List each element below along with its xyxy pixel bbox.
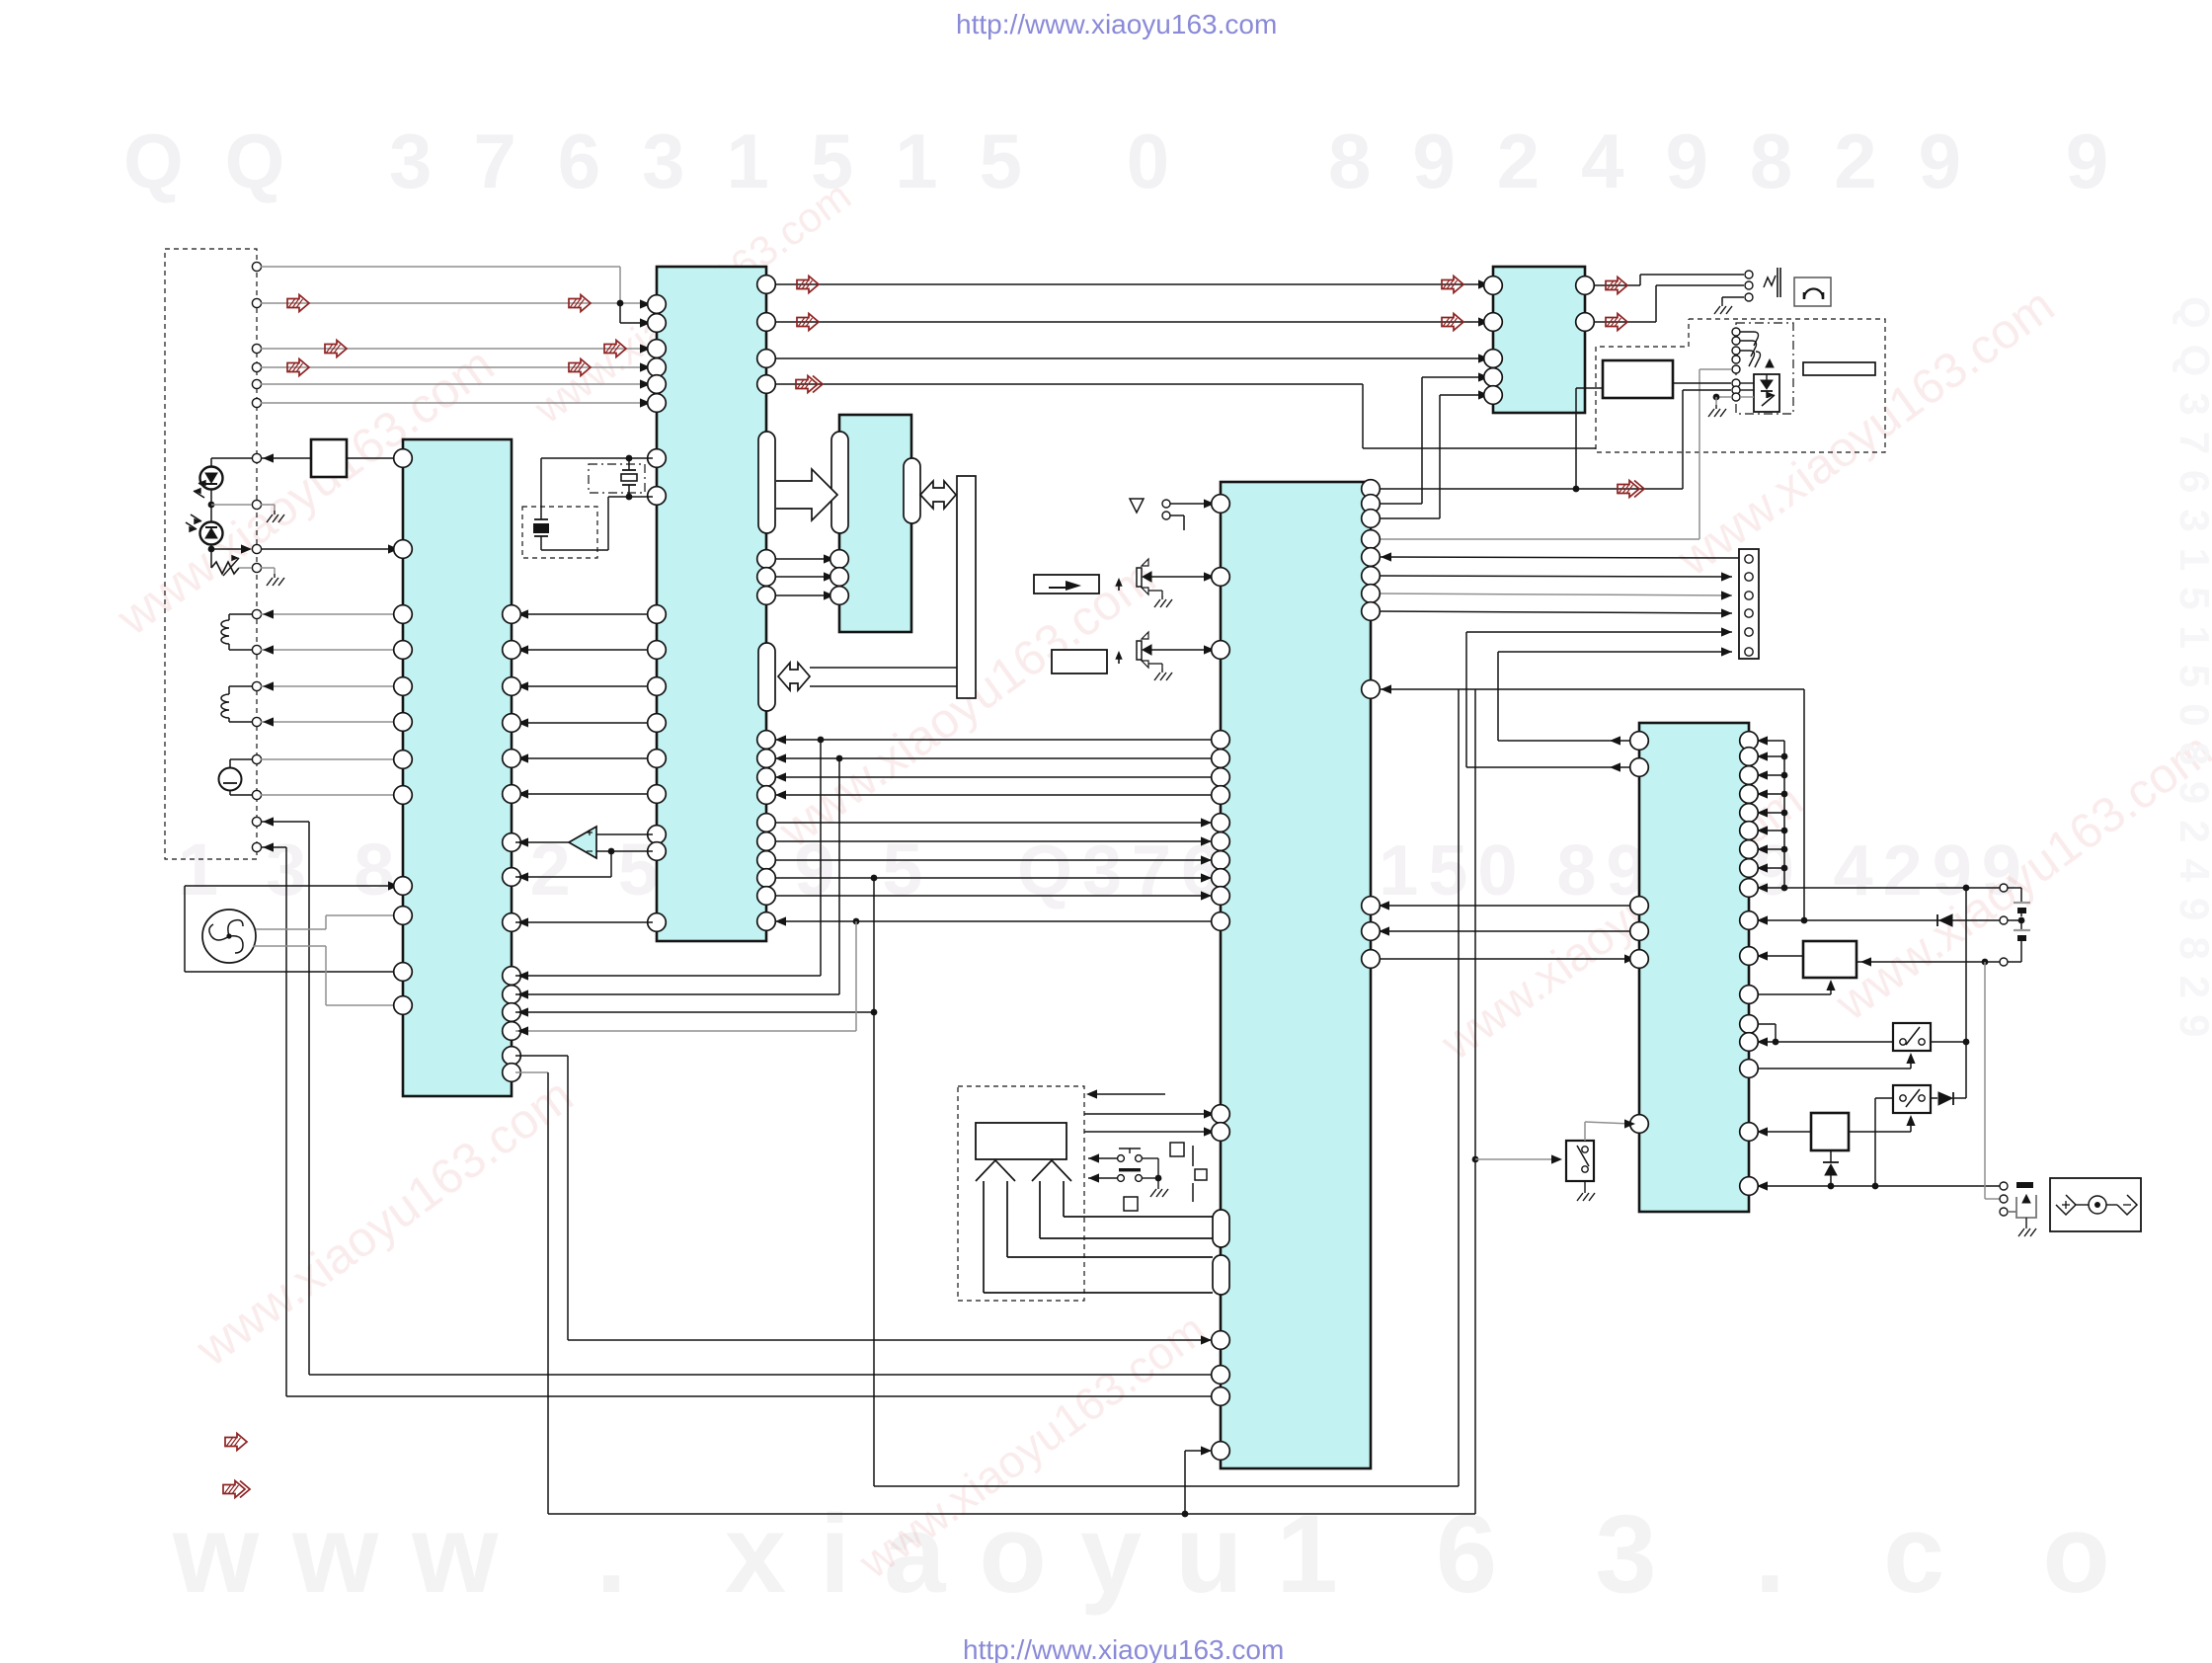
wire F1082 to SW1 bottom (1753, 1068, 1911, 1069)
bus arrow B to C (776, 469, 837, 520)
IC B right pins mid (757, 550, 776, 569)
bus port pill C left (831, 432, 848, 533)
wire B-D row 889 (771, 877, 1212, 879)
wire row 408 to B pin 6 (261, 402, 647, 404)
wire B-D row 907 (771, 895, 1212, 897)
wire row 575 to ground (239, 567, 252, 569)
LED D1 (emitter) (200, 467, 223, 490)
IC F left pins (1630, 732, 1649, 751)
signal arrow row 288 left (797, 277, 819, 293)
wire A-B row 934 (515, 921, 653, 923)
wire D2 cathode junction (210, 545, 212, 569)
signal arrow row 326 left (797, 314, 819, 331)
up arrow symbol 1 (1118, 581, 1120, 591)
wire row 464 circle to A via box (261, 457, 399, 459)
IC D left pins upper (1212, 495, 1230, 514)
battery cell BT1 (2008, 887, 2021, 889)
wire LED D1 anode (210, 458, 212, 467)
wire SW1 to rail (1931, 1041, 1966, 1043)
photodiode D2 (200, 522, 223, 545)
wire SW2 left from rail (1875, 1097, 1893, 1099)
wire R3 to SW2 bottom (1849, 1131, 1911, 1133)
regulator box R2 (1803, 941, 1856, 978)
earpiece symbol 2 (1137, 641, 1142, 660)
wire row 622 A to circle (261, 613, 399, 615)
wire row 307 with fork to B pins 1-2 (261, 302, 653, 304)
IC D right pins (1362, 480, 1381, 499)
IC block E (audio amp IC) (1493, 267, 1585, 413)
switch box SW1 (1893, 1023, 1931, 1051)
wire loop via 1505 (874, 1485, 1459, 1487)
wire row 270 to junction (261, 266, 620, 268)
earpiece symbol 1 (1137, 568, 1142, 587)
svg-text:http://www.xiaoyu163.com: http://www.xiaoyu163.com (963, 1634, 1284, 1663)
signal arrow row 389 (796, 376, 818, 393)
regulator box R3 (1811, 1113, 1849, 1150)
IC block A (servo/driver IC) (403, 439, 512, 1096)
bus port pill C right (904, 458, 920, 523)
dash-dot box optocoupler section (1736, 323, 1793, 414)
vertical rail 1991 (1965, 888, 1967, 1098)
wire B-E row 326 (771, 321, 1489, 323)
svg-text:www . xiaoyu1 6 3 . c o m: www . xiaoyu1 6 3 . c o m (172, 1492, 2212, 1616)
ground G2 (274, 574, 276, 578)
IC A right pins (503, 605, 521, 624)
wire row 832 to D pin (long L) (261, 821, 309, 823)
ground G3 (1161, 595, 1163, 599)
ground G6 (1721, 302, 1723, 306)
wire keyboard to D pin 1146 (1084, 1131, 1213, 1133)
wire F750 to connector row 660 (1498, 740, 1635, 742)
IC E left pins (1484, 277, 1503, 295)
wire B-C row 584 (771, 576, 834, 578)
op-amp U7 (569, 827, 596, 858)
wire gray battery to DC jack (1984, 962, 1986, 1199)
wire row 805 circle to A (261, 794, 399, 796)
DC jack contacts (2000, 1182, 2008, 1190)
signal arrow row 353 right (604, 341, 626, 357)
junction tap row 933 gray (853, 918, 860, 925)
wire B-D row 833 (771, 822, 1212, 824)
DC jack body (2008, 1195, 2036, 1218)
battery cell BT2 (2020, 920, 2022, 929)
wire B pin 464 net (541, 457, 653, 459)
tape direction indicator box (1034, 575, 1099, 594)
wire earpiece1 to D pin 584 (1151, 576, 1213, 578)
light arrows D1 (194, 491, 204, 498)
wire A-B row 768 (515, 757, 653, 759)
diode D3 (1939, 914, 1952, 926)
IC block D (system control MCU) (1221, 482, 1371, 1468)
wire B-C row 603 (771, 594, 834, 596)
wire D583 to connector (1377, 576, 1732, 577)
legend signal arrow 2 (223, 1481, 245, 1498)
label plate box (1803, 362, 1875, 375)
bus port pill D left upper (1213, 1210, 1229, 1247)
inductor L2 (229, 685, 252, 687)
connector contact circles on mechanism boundary (252, 262, 261, 271)
wire D495 to regulator R1 (1377, 488, 1683, 490)
headphone jack J1 body (1764, 276, 1776, 287)
wire R2 right feed (1856, 961, 2000, 963)
signal arrow row 326 right (1442, 314, 1463, 331)
wire into keyboard box top (1096, 1093, 1165, 1095)
ground G9 (2025, 1225, 2027, 1228)
wire F917 to D (1379, 905, 1635, 907)
wire motor bracket to A pins (185, 885, 399, 887)
wire B-C row 566 (771, 558, 834, 560)
wire E289 to jack tip (1590, 284, 1640, 286)
svg-text:89249829 9: 89249829 9 (1328, 118, 2150, 204)
wire A1069 to D pin 1358 (515, 1055, 568, 1057)
wire row 372 to B pin 4 (261, 366, 647, 368)
wire F879 from bus (1753, 867, 1784, 869)
wire D525 to E400 (1377, 517, 1440, 519)
wire F1201 battery negative rail (1753, 1185, 2000, 1187)
regulator R1 box (1603, 360, 1673, 398)
wire earpiece2 to D pin 658 (1151, 649, 1213, 651)
IC block F (power supply IC) (1639, 723, 1749, 1212)
ground G5 (1157, 1185, 1159, 1189)
IC B right pins upper (757, 276, 776, 294)
wire row 695 circle to A (261, 685, 399, 687)
bus port pill B right lower (758, 643, 775, 711)
microphone capsule MIC1 (219, 768, 242, 791)
wire F1055 switch SW1 (1753, 1041, 1893, 1043)
dash-dot box crystal X1 (589, 464, 645, 493)
signal arrow row 372 left (287, 359, 309, 376)
DC plug bar (2016, 1182, 2033, 1188)
IC D right pins mid (1362, 897, 1381, 915)
wire F777 to connector row 640 (1466, 766, 1635, 768)
dashed enclosure keyboard block (958, 1086, 1084, 1301)
external power connector box (2050, 1178, 2141, 1231)
dashed box capacitor C1 (522, 507, 597, 558)
wire B-D row 933 (775, 920, 1212, 922)
wire SW2 output diode (1931, 1097, 1937, 1099)
IC block C (memory IC) (839, 415, 911, 632)
signal arrow row 372 right (569, 359, 591, 376)
wire row 511 to ground (211, 504, 252, 506)
wire row 556 to A pin (211, 548, 248, 550)
wires tact switch (1088, 1157, 1117, 1159)
wire D510 to E382 (1377, 503, 1422, 505)
wire cap return to B pin 502 (541, 549, 608, 551)
wire B-D row 871 (771, 859, 1212, 861)
wire R1 left feed (1576, 387, 1603, 389)
wire F899 battery rail (1753, 887, 2000, 889)
wire keyboard to D pin 1128 (1084, 1113, 1213, 1115)
wire opamp - input with junction (596, 850, 653, 852)
IC A left pins (394, 449, 413, 468)
wire F860 from bus (1753, 848, 1784, 850)
ext mic jack symbol (1130, 499, 1144, 513)
wire opamp output to A (515, 841, 569, 843)
diode D5 below R3 (1823, 1161, 1839, 1163)
headphone jack J1 contacts (1745, 271, 1753, 278)
wire F943 to D (1379, 930, 1635, 932)
wire B-E row 363 (771, 357, 1489, 359)
switch box SW2 (1893, 1085, 1931, 1113)
small square S2 (1124, 1197, 1138, 1211)
wire row 731 circle to A (261, 721, 399, 723)
wire F1037 jog (1753, 1023, 1776, 1025)
tact switch SW4 (1118, 1155, 1125, 1162)
inductor L1 (229, 613, 252, 615)
wire D698 long L to power rail (1381, 688, 1804, 690)
indicator box 2 (1052, 650, 1107, 673)
wire F766 from bus (1753, 755, 1784, 757)
svg-text:http://www.xiaoyu163.com: http://www.xiaoyu163.com (956, 9, 1277, 40)
hollow up arrow 1 shaft to D pill lower (983, 1181, 985, 1293)
opto input circles (1732, 328, 1740, 336)
wire gray opto ground (1716, 396, 1732, 398)
capacitor C1 (534, 518, 548, 520)
wire R1 to opto circles (1673, 382, 1731, 384)
key matrix box (976, 1123, 1066, 1159)
wire A-B row 695 (515, 685, 653, 687)
wire row 858 to D pin (long L) (261, 846, 286, 848)
wire cap branch (540, 458, 542, 519)
IC B left pins (648, 295, 667, 314)
relay contact squiggles (1740, 332, 1759, 346)
wire row 769 circle to A (261, 758, 399, 760)
wire row 658 circle to A (261, 649, 399, 651)
signal arrow E326 (1606, 314, 1627, 331)
wire A-B row 622 (515, 613, 653, 615)
bus double arrow B lower (778, 663, 810, 690)
wire F968 from R2 (1753, 955, 1803, 957)
wires opto to box (1740, 382, 1754, 384)
wire F1007 to R2 bottom (1753, 993, 1831, 995)
hollow up arrow 2 shaft to D pill upper (1039, 1181, 1041, 1238)
wire F804 from bus (1753, 793, 1784, 795)
wire A-B row 804 (515, 793, 653, 795)
wire mic to D pin 510 (1170, 503, 1213, 505)
signal arrow E289 (1606, 277, 1627, 294)
IC E right pins (1576, 277, 1595, 295)
wire B-D row 852 (771, 840, 1212, 842)
junction tap row 889 long vertical (871, 875, 878, 882)
IC B right pins bundle (757, 731, 776, 750)
wire row 389 to B pin 5 (261, 383, 647, 385)
wire B-D row 768 (771, 757, 1212, 759)
bus port pill B right upper (758, 432, 775, 533)
svg-text:QQ37631515089249829: QQ37631515089249829 (2172, 296, 2212, 1053)
motor M1 (202, 910, 256, 963)
signal arrow row 495 (1618, 481, 1639, 498)
junction taps to A inputs (818, 737, 825, 744)
ground G4 (1161, 669, 1163, 673)
signal arrow row 307 left (287, 295, 309, 312)
wire E326 to jack ring (1590, 321, 1656, 323)
small square S1 (1170, 1143, 1184, 1156)
wire D971 to F (1375, 958, 1635, 960)
wire F1146 from R3 (1753, 1131, 1811, 1133)
battery contacts (2000, 884, 2008, 892)
headphone icon box (1794, 277, 1831, 306)
IC C left pins (830, 550, 849, 569)
IC D left pins bundle (1212, 731, 1230, 750)
wire D546 gray to optocoupler box (1377, 538, 1699, 540)
crystal X1 (628, 458, 630, 470)
wire motor winding 1 to A (256, 928, 326, 930)
triangle marker (1766, 359, 1774, 367)
wire F823 from bus (1753, 812, 1784, 814)
vertical trunk 1494 (1474, 689, 1476, 1514)
legend signal arrow 1 (225, 1434, 247, 1451)
signal arrow row 353 left (325, 341, 347, 357)
wire SW3 ground (1584, 1181, 1586, 1189)
wire motor winding 2 to A (253, 945, 326, 947)
IC F right pins (1740, 732, 1759, 751)
signal arrow row 288 right (1442, 277, 1463, 293)
wire SW3 output to F1138 (1584, 1122, 1586, 1141)
dashed enclosure mechanism (left) (165, 249, 257, 859)
wire 1704 vertical to opto row (1682, 390, 1684, 489)
wire B-D row 749 (771, 739, 1212, 741)
wire A1086 gray long bottom (515, 1071, 548, 1073)
wire opamp + input (596, 833, 653, 835)
up arrow symbol 2 (1118, 654, 1120, 664)
wire A-B row 732 (515, 722, 653, 724)
wire connector to D564 (1381, 557, 1743, 558)
ground G8 (1584, 1189, 1586, 1193)
variable resistor VR1 (211, 562, 239, 574)
wire node D1-D2 junction (210, 490, 212, 522)
bus lines B pill to RAM bar (810, 667, 957, 669)
capacitor C9 (1192, 1146, 1194, 1166)
bus double arrow C to RAM bar (920, 481, 956, 509)
optocoupler box OC1 (1754, 374, 1779, 412)
power switch SW3 (1566, 1141, 1594, 1181)
IC D left pins bottom (1212, 1105, 1230, 1124)
wire B-E row 288 (771, 283, 1489, 285)
signal arrow row 307 right (569, 295, 591, 312)
wire jack sleeve to ground (1722, 296, 1744, 298)
svg-text:QQ 37631515 0: QQ 37631515 0 (123, 118, 1211, 204)
ground G1 (274, 511, 276, 515)
wire bottom junction to D pin 1469 (1182, 1511, 1189, 1518)
wire B row 389 to power box (771, 383, 1363, 385)
hollow up arrow 1 head (976, 1160, 1015, 1181)
wire F750 from bus (1753, 740, 1784, 742)
hollow up arrow 2 head (1032, 1160, 1071, 1181)
dashed enclosure power adaptor (top right, stepped) (1596, 319, 1885, 452)
wire F841 from bus (1753, 830, 1784, 831)
diode D4 (1938, 1092, 1952, 1105)
wire D619 to connector (1377, 611, 1732, 613)
component box RMT (remote sensor) (311, 439, 347, 477)
wire B-D row 787 (771, 776, 1212, 778)
light arrows D2 (191, 515, 201, 521)
wire mic stub (1170, 515, 1184, 516)
RAM bus bar (957, 476, 976, 698)
wire A-B row 658 (515, 649, 653, 651)
bus port pill D left lower (1213, 1255, 1229, 1295)
wire B-D row 805 (771, 794, 1212, 796)
connector CN1 (1739, 549, 1759, 659)
ground G7 (1715, 405, 1717, 409)
wire D601 to connector gray (1377, 594, 1732, 595)
wire F932 diode row (1753, 919, 2000, 921)
wire F785 from bus (1753, 774, 1784, 776)
svg-text:Q376315150 89949 4299: Q376315150 89949 4299 (1017, 831, 2031, 911)
IC block B (DSP IC) (657, 267, 766, 941)
wire SW3 input (1475, 1158, 1560, 1160)
wire row 353 to B pin 3 (261, 348, 647, 350)
